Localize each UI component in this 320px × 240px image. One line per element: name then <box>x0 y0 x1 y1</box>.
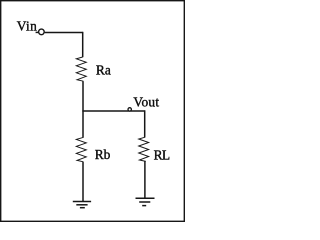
svg-text:RL: RL <box>154 147 170 162</box>
wire left vertical down to Ra <box>82 32 84 57</box>
svg-text:Vin: Vin <box>17 19 37 34</box>
svg-text:Ra: Ra <box>96 63 111 78</box>
ground left (below Rb) <box>73 202 91 208</box>
wire Ra bottom through junction to Rb top <box>82 81 84 138</box>
ground right (below RL) <box>136 198 155 205</box>
border frame <box>1 1 185 222</box>
wire Rb bottom to ground <box>82 162 84 202</box>
resistor Rb <box>76 138 86 162</box>
svg-text:Vout: Vout <box>133 95 159 110</box>
wire stub Vin terminal <box>36 31 39 33</box>
wire RL bottom to ground <box>144 161 146 198</box>
wire junction horizontal to Vout and RL corner <box>82 110 144 112</box>
resistor RL <box>139 137 149 161</box>
terminal circle Vin <box>39 29 45 35</box>
wire top horizontal Vin to corner <box>45 32 83 34</box>
wire right vertical down to RL <box>144 110 146 137</box>
svg-text:Rb: Rb <box>95 147 111 162</box>
terminal circle Vout <box>128 108 131 111</box>
resistor Ra <box>76 57 86 81</box>
